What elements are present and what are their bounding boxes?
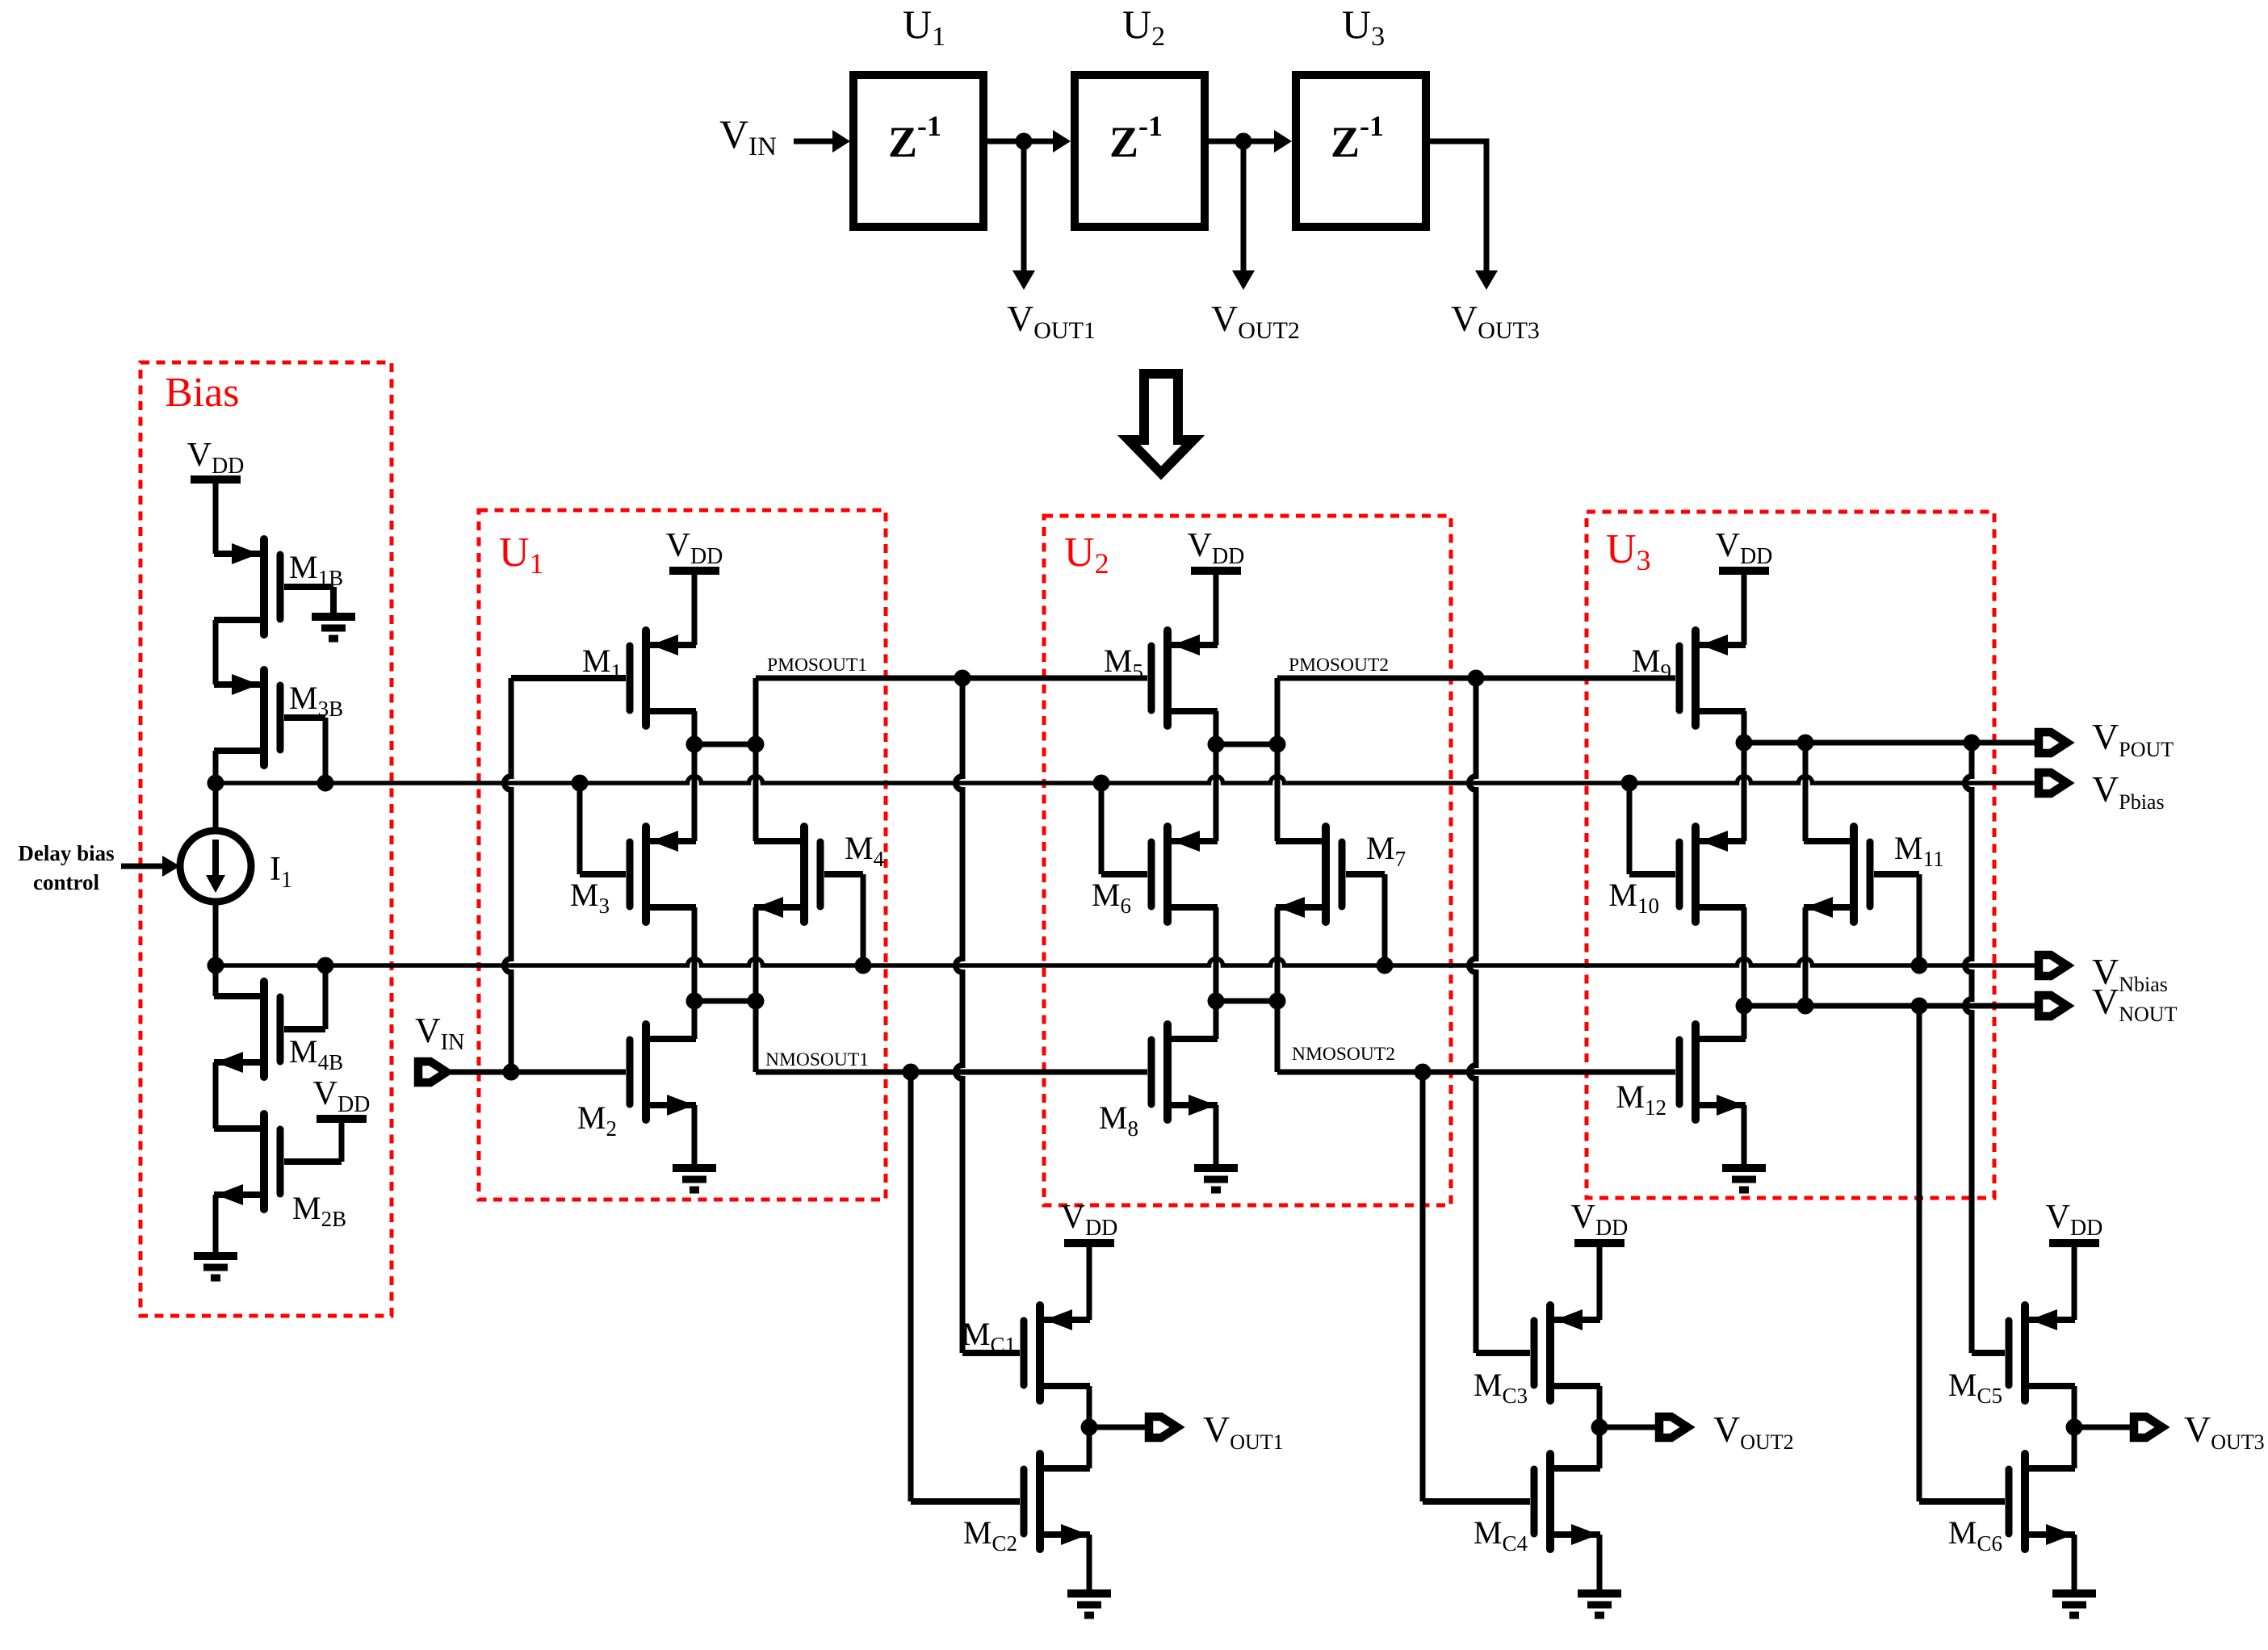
wire MC5 drain to output node [2072,1386,2077,1427]
label M8 [1099,1099,1138,1141]
label VPOUT [2092,716,2174,761]
wire MC6 drain to output node [2072,1427,2077,1468]
transistor M8 (NMOS) [1151,1024,1218,1120]
node NMOS drain (U2) [1208,993,1286,1010]
transistor MC3 (PMOS) [1534,1305,1600,1401]
transistor M1 (PMOS) [630,630,696,726]
svg-text:VOUT3: VOUT3 [2184,1409,2265,1454]
label PMOSOUT2 [1289,655,1389,676]
label MC5 [1948,1367,2002,1408]
terminal VOUT1 [1149,1417,1177,1438]
node Pbias taps (bias) [208,775,334,792]
label MC4 [1474,1514,1528,1556]
transistor M11 (PMOS cross-coupled) [1804,827,1870,922]
terminal VPOUT [2039,732,2067,753]
transistor M1B (PMOS) [214,539,343,634]
label NMOSOUT1 [765,1049,869,1070]
wire M12 drain to NMOS node [1742,1006,1747,1039]
svg-text:VDD: VDD [1188,527,1245,569]
terminal VOUT2 [1659,1417,1687,1438]
wire M3B gate to Pbias [284,718,325,783]
transistor M5 (PMOS) [1151,630,1218,726]
transistor M3 (PMOS) [630,827,696,922]
node NMOS drain (U3) [1736,998,1814,1015]
delay block U3 (Z^-1) [1296,75,1426,227]
wire VPOUT line [1744,735,2039,752]
terminal VOUT3 [2134,1417,2162,1438]
wire M3B drain to current source [213,751,219,831]
wire output node to terminal VOUT3 [2074,1425,2134,1430]
transistor M7 (PMOS cross-coupled) [1276,827,1342,922]
svg-text:M11: M11 [1894,830,1944,871]
wire U3 output down to VOUT3 [1430,141,1498,290]
wire M4 gate to Nbias [824,874,872,974]
terminal VNOUT [2039,995,2067,1016]
svg-text:VDD: VDD [1716,527,1773,569]
wire NMOSOUT to MC2 gate [911,1072,1020,1501]
svg-text:M10: M10 [1608,877,1659,918]
delay block U2 (Z^-1) [1075,75,1205,227]
power VDD (bias top) [187,437,245,480]
wire MC1 drain to output node [1087,1386,1092,1427]
wire M10 drain to NMOS node [1742,907,1747,1006]
svg-text:NMOSOUT2: NMOSOUT2 [1292,1044,1395,1065]
label I1 [270,851,292,893]
power VDD (buffer 1) [1061,1199,1118,1243]
wire PMOSOUT to MC5 gate [1965,743,2006,1353]
svg-text:M6: M6 [1092,877,1131,918]
arrow Delay bias control to I1 [121,856,180,877]
wire Nbias to M4B drain [216,965,255,996]
svg-text:M7: M7 [1366,830,1406,871]
Bias block dashed box [140,362,392,1316]
svg-text:U1: U1 [499,530,544,580]
label M6 [1092,877,1131,918]
wire M4B source to M2B drain [213,1062,219,1129]
wire VNOUT line [1805,998,2039,1015]
wire node to M3 source [692,744,698,841]
wire M2 drain to NMOS node [692,1001,698,1039]
svg-text:U2: U2 [1122,2,1165,52]
label VPbias [2092,768,2165,814]
wire M12 source to ground [1742,1105,1747,1168]
wire VDD to M1 source [651,575,694,645]
label M4 [845,830,885,871]
power VDD (buffer 3) [2046,1199,2103,1243]
svg-text:U3: U3 [1606,526,1651,576]
transistor M4 (PMOS cross-coupled) [754,827,820,922]
wire Pbias tap to M10 gate [1621,775,1676,875]
ground (U3) [1722,1168,1766,1190]
wire M6 drain to NMOS node [1214,907,1219,1001]
label VOUT3 (top) [1451,298,1540,344]
label M5 [1104,643,1143,684]
wire M11 gate to Nbias [1874,874,1928,974]
wire M2B gate to VDD [284,1123,342,1162]
svg-text:M4B: M4B [289,1033,343,1074]
wire M2B source to ground [213,1195,219,1256]
svg-text:MC3: MC3 [1474,1367,1528,1408]
label U1 cell (red) [499,530,544,580]
node PMOS drain (U1) [686,736,765,753]
terminal VNbias [2039,955,2067,976]
label U2 cell (red) [1064,530,1109,580]
svg-text:PMOSOUT2: PMOSOUT2 [1289,655,1389,676]
cell U3 dashed box [1587,512,1994,1198]
wire Pbias rail [216,777,2039,784]
power VDD (cell U2) [1188,527,1245,571]
node VOUT1 [1081,1419,1098,1436]
wire M8 source to ground [1214,1105,1219,1168]
label VOUT3 (schematic) [2184,1409,2265,1454]
label M3 [570,877,610,918]
wire MC2 drain to output node [1087,1427,1092,1468]
label VOUT1 (top) [1007,298,1096,344]
svg-text:VDD: VDD [1571,1199,1629,1241]
transistor MC5 (PMOS) [2009,1305,2075,1401]
transistor MC1 (PMOS) [1024,1305,1090,1401]
svg-text:VPOUT: VPOUT [2092,716,2174,761]
wire M3 drain to NMOS node [692,907,698,1001]
current source I1 [180,831,251,902]
wire output node to terminal VOUT2 [1599,1425,1659,1430]
label NMOSOUT2 [1292,1044,1395,1065]
wire I1 to Nbias [213,902,219,965]
wire Pbias tap to M3 gate [572,775,627,875]
transistor MC4 (NMOS) [1534,1454,1600,1549]
svg-text:U3: U3 [1342,2,1385,52]
svg-text:Delay bias: Delay bias [18,841,114,865]
wire NMOSOUT2 line [1277,1001,1675,1081]
label U3 cell (red) [1606,526,1651,576]
transistor M12 (NMOS) [1679,1024,1746,1120]
wire node to M11 top [1803,743,1809,841]
wire M4B gate from Nbias [284,965,325,1029]
svg-text:Bias: Bias [165,370,239,416]
svg-text:Z-1: Z-1 [1109,110,1163,166]
wire M7 gate to Nbias [1346,874,1394,974]
wire VDD to M5 source [1172,575,1216,645]
svg-text:NMOSOUT1: NMOSOUT1 [765,1049,869,1070]
ground (buffer 2) [1578,1593,1621,1615]
node VOUT3 [2066,1419,2083,1436]
svg-text:VDD: VDD [187,437,245,479]
wire M1 gate to VIN line [505,678,627,1072]
wire PMOSOUT to MC1 gate [956,678,1021,1353]
label VNbias [2092,951,2168,996]
svg-text:VDD: VDD [2046,1199,2103,1241]
label M2 [577,1099,617,1141]
label M11 [1894,830,1944,871]
svg-text:U2: U2 [1064,530,1109,580]
svg-text:VOUT2: VOUT2 [1713,1409,1794,1454]
label U1 (top) [903,2,945,52]
wire M11 bottom to NMOS node [1803,907,1809,1006]
terminal VPbias [2039,773,2067,794]
wire MC6 source to ground [2072,1535,2077,1593]
power VDD (cell U1) [666,527,723,571]
wire NMOSOUT to MC6 gate [1919,1006,2005,1501]
transistor MC6 (NMOS) [2009,1454,2075,1549]
svg-text:VPbias: VPbias [2092,768,2165,814]
svg-text:VDD: VDD [666,527,723,569]
transistor M2 (NMOS) [630,1024,696,1120]
cell U1 dashed box [479,510,886,1200]
wire NMOSOUT1 line [756,1001,1147,1081]
transistor MC2 (NMOS) [1024,1454,1090,1549]
wire NMOSOUT to MC4 gate [1423,1072,1530,1501]
label Bias (red) [165,370,239,416]
label PMOSOUT1 [767,655,867,676]
transistor M4B (NMOS) [214,982,343,1077]
wire M8 drain to NMOS node [1214,1001,1219,1039]
svg-text:M4: M4 [845,830,885,871]
wire VDD to M9 source [1700,575,1744,645]
wire M1B gate to ground [284,587,333,617]
wire output node to terminal VOUT1 [1089,1425,1149,1430]
label Delay bias control [18,841,114,894]
svg-text:PMOSOUT1: PMOSOUT1 [767,655,867,676]
wire VIN to U1 delay block [794,130,850,153]
tap wire down to VOUT2 [1232,141,1255,290]
wire node to M7 top [1275,744,1281,841]
svg-text:MC1: MC1 [962,1316,1016,1357]
label U3 (top) [1342,2,1385,52]
label M12 [1616,1078,1666,1120]
svg-text:Z-1: Z-1 [1331,110,1384,166]
wire PMOSOUT2 line [1277,670,1675,745]
wire VDD to MC3 source [1555,1247,1599,1320]
ground (bias bottom) [194,1256,237,1278]
svg-text:MC4: MC4 [1474,1514,1528,1556]
power VDD (buffer 2) [1571,1199,1629,1243]
wire M5 drain to node [1214,711,1219,744]
wire M1B drain to M3B source [213,620,219,685]
ground (U2) [1194,1168,1238,1190]
svg-text:M2: M2 [577,1099,617,1141]
wire M2 source to ground [692,1105,698,1168]
node NMOS drain (U1) [686,993,765,1010]
label VIN (schematic) [415,1011,464,1055]
svg-text:U1: U1 [903,2,945,52]
label VOUT2 (top) [1211,298,1300,344]
svg-text:control: control [33,870,99,894]
wire PMOSOUT to MC3 gate [1469,678,1531,1353]
transistor M3B (PMOS) [214,670,343,765]
wire MC4 drain to output node [1597,1427,1603,1468]
big hollow arrow (block diagram to schematic) [1129,374,1193,473]
label M1 [582,643,622,684]
label VOUT1 (schematic) [1203,1409,1284,1454]
wire M1 drain to node [692,711,698,744]
wire node to M10 source [1742,743,1747,841]
svg-text:VOUT1: VOUT1 [1007,298,1096,344]
wire M9 drain to node [1742,711,1747,743]
wire PMOSOUT1 line [756,670,1147,745]
wire node to M6 source [1214,744,1219,841]
svg-text:VDD: VDD [313,1075,371,1117]
wire M4 bottom to NMOS node [753,907,759,1001]
wire VIN line to M2 gate [447,1064,626,1081]
label M7 [1366,830,1406,871]
tap wire down to VOUT1 [1012,141,1035,290]
wire U1 to U2 with junction [987,130,1071,153]
wire MC4 source to ground [1597,1535,1603,1593]
wire U2 to U3 with junction [1209,130,1292,153]
svg-text:M12: M12 [1616,1078,1666,1120]
transistor M9 (PMOS) [1679,630,1746,726]
transistor M6 (PMOS) [1151,827,1218,922]
label MC6 [1948,1514,2002,1556]
ground (buffer 1) [1067,1593,1111,1615]
label VNOUT [2092,981,2178,1026]
ground (M1B gate) [312,617,355,639]
label M9 [1632,643,1671,684]
wire M7 bottom to NMOS node [1275,907,1281,1001]
svg-text:M8: M8 [1099,1099,1138,1141]
node PMOS drain (U3) [1736,735,1814,752]
node Nbias taps (bias) [208,957,334,974]
svg-text:MC2: MC2 [963,1514,1017,1556]
svg-text:MC5: MC5 [1948,1367,2002,1408]
wire VDD to M1B source [216,484,255,554]
terminal VIN (schematic) [418,1062,446,1083]
label VIN (top diagram input) [719,111,777,161]
cell U2 dashed box [1044,516,1451,1205]
svg-text:VOUT1: VOUT1 [1203,1409,1284,1454]
label VOUT2 (schematic) [1713,1409,1794,1454]
svg-text:VIN: VIN [415,1011,464,1055]
delay block U1 (Z^-1) [853,75,983,227]
node PMOS drain (U2) [1208,736,1286,753]
transistor M2B (NMOS) [214,1114,346,1231]
transistor M10 (PMOS) [1679,827,1746,922]
label M10 [1608,877,1659,918]
wire Nbias rail [216,959,2039,966]
ground (U1) [673,1168,716,1190]
svg-text:M3: M3 [570,877,610,918]
wire MC3 drain to output node [1597,1386,1603,1427]
wire MC2 source to ground [1087,1535,1092,1593]
label MC2 [963,1514,1017,1556]
svg-text:I1: I1 [270,851,292,893]
power VDD (M2B gate) [313,1075,371,1119]
svg-text:VOUT3: VOUT3 [1451,298,1540,344]
label MC1 [962,1316,1016,1357]
ground (buffer 3) [2052,1593,2096,1615]
label U2 (top) [1122,2,1165,52]
power VDD (cell U3) [1716,527,1773,571]
label MC3 [1474,1367,1528,1408]
svg-text:VOUT2: VOUT2 [1211,298,1300,344]
wire Pbias tap to M6 gate [1093,775,1148,875]
svg-text:VIN: VIN [719,111,777,161]
wire VDD to MC1 source [1045,1247,1089,1320]
node VOUT2 [1591,1419,1608,1436]
svg-text:Z-1: Z-1 [888,110,941,166]
svg-text:MC6: MC6 [1948,1514,2002,1556]
wire VDD to MC5 source [2030,1247,2074,1320]
wire node to M4 top [753,744,759,841]
svg-text:M2B: M2B [292,1190,346,1231]
